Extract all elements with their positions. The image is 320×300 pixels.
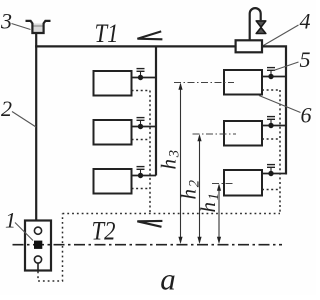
pump square — [34, 241, 42, 249]
wire L3 to riser — [132, 175, 157, 177]
radiator L2 — [94, 120, 132, 145]
wire R3 to riser — [262, 173, 286, 175]
dashed branch R2 — [262, 138, 280, 140]
dotted return collector — [63, 213, 281, 215]
dotted pump loop — [38, 214, 63, 282]
valve R1 (5) — [267, 68, 275, 80]
svg-text:2: 2 — [1, 96, 12, 121]
h1 arrow — [217, 184, 221, 244]
T2 flow arrow — [137, 221, 162, 227]
radiator R1 — [224, 70, 262, 95]
leader 3 — [12, 24, 31, 30]
h1 extension line — [212, 183, 235, 185]
valve L3 — [137, 167, 145, 179]
radiator R3 — [224, 170, 262, 196]
leader 6 — [259, 96, 301, 113]
svg-text:T2: T2 — [92, 217, 116, 246]
vent valve — [256, 21, 266, 34]
expansion tank water line — [33, 25, 43, 27]
radiator L3 — [94, 169, 132, 194]
valve R2 — [267, 117, 275, 129]
svg-text:T1: T1 — [95, 19, 119, 48]
h3 arrow — [178, 83, 182, 244]
riser main (2) — [35, 33, 37, 221]
h2 arrow — [197, 134, 201, 244]
supply right segment + right riser — [262, 46, 286, 174]
radiator L1 — [94, 71, 132, 96]
leader 1 — [15, 223, 33, 241]
vent pipe — [250, 8, 261, 41]
expansion tank body — [26, 21, 51, 33]
left column riser — [155, 46, 157, 175]
radiator R2 — [224, 121, 262, 146]
h3 extension line — [174, 82, 234, 84]
T1 supply line — [35, 45, 236, 47]
svg-text:а: а — [160, 262, 176, 296]
expansion tank water fill — [33, 24, 43, 33]
wire R2 to riser — [262, 125, 286, 127]
dashed circulation riser left — [149, 91, 151, 214]
leader 4 — [263, 25, 299, 46]
dashed branch R3 — [262, 189, 280, 191]
svg-text:4: 4 — [300, 9, 311, 34]
valve L2 — [137, 118, 145, 130]
leader 5 — [274, 62, 299, 71]
pump lower stem — [37, 263, 39, 271]
dashed branch L3 — [132, 188, 151, 190]
pump upper circle — [34, 227, 41, 234]
dashed circulation riser right — [279, 90, 281, 214]
valve R3 — [267, 165, 275, 177]
svg-text:5: 5 — [300, 47, 311, 72]
dashed branch L2 — [132, 139, 151, 141]
svg-text:3: 3 — [0, 9, 12, 34]
wire R1 to riser — [262, 76, 286, 78]
wire L2 to riser — [132, 126, 157, 128]
dashed branch L1 — [132, 90, 151, 92]
T1 flow arrow — [137, 31, 162, 39]
wire L1 to riser — [132, 77, 157, 79]
dashed branch R1 — [262, 89, 280, 91]
valve L1 — [137, 69, 145, 81]
leader 2 — [12, 112, 36, 128]
svg-text:6: 6 — [301, 103, 312, 128]
air collector U4 — [236, 40, 262, 52]
pump lower circle — [34, 256, 41, 263]
h2 extension line — [193, 133, 237, 135]
T2 return line — [13, 244, 283, 246]
svg-text:1: 1 — [5, 208, 16, 233]
pump box 1 — [25, 221, 51, 271]
